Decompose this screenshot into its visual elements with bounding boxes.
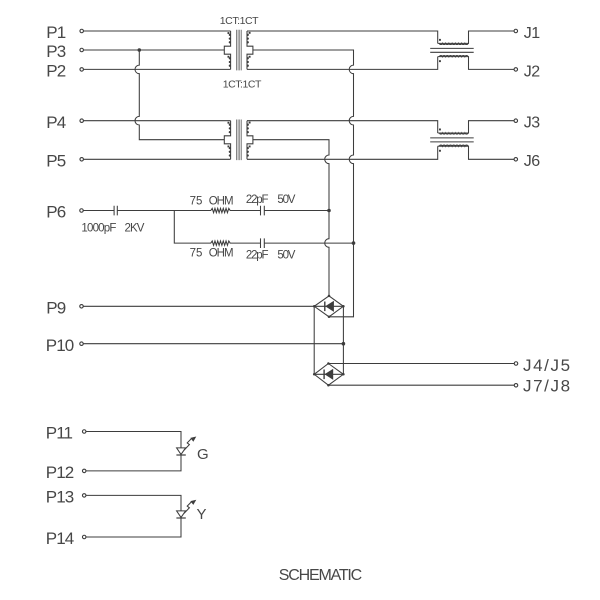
diode array D2 cathode bar [323,370,325,380]
svg-text:1000pF: 1000pF [81,222,116,234]
svg-text:1CT:1CT: 1CT:1CT [223,79,262,91]
wire T1 secondary top to choke L1 and J1 [247,31,438,43]
diode array D1 crossbar [314,305,343,307]
choke L2 top winding bumps [439,133,468,134]
wire P3 to T1 primary center tap [84,49,225,51]
transformer T2 secondary winding (right) [247,121,253,160]
diode array D2 vertex dots [327,362,330,365]
svg-text:J1: J1 [524,25,540,42]
transformer T2 core [237,120,242,161]
svg-text:P4: P4 [46,113,65,132]
choke L2 bottom phase dot [439,150,441,152]
diode array D1 cathode bar [324,302,326,312]
svg-text:P9: P9 [46,298,65,317]
choke L1 core [430,48,474,52]
svg-text:P10: P10 [46,336,74,355]
wire LED DS1 cathode to P12 [86,455,181,471]
terminal J6 [514,158,518,162]
wire P9 to diode array D1 left [83,305,314,307]
wire LED DS2 cathode to P14 [86,518,181,537]
diode array D1 diode triangle [325,301,334,312]
svg-text:J7/J8: J7/J8 [523,377,572,396]
transformer T2 primary winding (left) [224,121,230,160]
junction dot lower RC to vertical [352,241,356,245]
svg-text:P3: P3 [46,42,65,61]
transformer T1 secondary winding bumps [247,34,249,36]
LED DS1 emission arrow [184,438,192,450]
svg-text:75: 75 [190,196,203,208]
svg-text:J6: J6 [524,153,540,170]
wire P3 junction down to T2 center tap (hops over P2 and P4) [135,50,224,140]
svg-text:P12: P12 [46,463,74,482]
svg-text:50V: 50V [277,250,295,262]
terminal P12 [82,469,86,473]
wire T2 secondary top to choke L2 and J3 [247,121,438,133]
wire D2 top vertex to J4/J5 [328,363,514,365]
LED DS2 cathode bar [176,517,185,519]
capacitor C3 22pF 50V (lower) [261,238,265,248]
svg-text:Y: Y [197,506,207,523]
transformer T2 secondary phase dots [249,122,251,124]
choke L2 bottom winding [438,146,514,159]
transformer T1 primary winding (left) [224,31,230,69]
terminal P1 [80,29,84,33]
svg-text:22pF: 22pF [246,194,269,206]
capacitor C1 1000pF 2KV [114,206,117,216]
choke L1 top phase dot [439,39,441,41]
transformer T1 primary winding bumps [229,34,231,36]
svg-text:P14: P14 [46,529,74,548]
transformer T1 secondary winding (right) [247,31,253,69]
transformer T2 primary winding bumps [229,124,231,126]
svg-text:P6: P6 [46,203,65,222]
junction dot on P3 line [138,48,142,52]
wire T1 secondary bottom to choke L1 and J2 [247,57,438,70]
wire C1 to resistor R1, branch at x=174.3 [117,210,211,212]
capacitor C2 22pF 50V (upper) [261,206,265,216]
terminal P5 [80,158,84,162]
terminal P14 [82,535,86,539]
diode array D2 crossbar [314,373,343,375]
LED DS2 triangle [177,511,186,518]
svg-text:SCHEMATIC: SCHEMATIC [279,567,362,584]
transformer T1 primary phase dots [228,32,230,34]
wire R2 to capacitor C3 [230,242,261,244]
terminal P2 [80,68,84,72]
terminal J2 [514,68,518,72]
terminal J7/J8 [514,384,518,388]
svg-text:P13: P13 [46,488,74,507]
diode array D1 diamond [314,296,343,317]
choke L1 bottom winding bumps [439,55,468,56]
terminal J4/J5 [514,362,518,366]
diode array D2 diamond [314,364,343,386]
junction dot upper RC to vertical [327,209,331,213]
svg-text:J2: J2 [524,63,540,80]
choke L2 top phase dot [439,129,441,131]
diode array D2 diode triangle [325,369,334,380]
wire R1 to capacitor C2 [230,210,261,212]
svg-text:P2: P2 [46,62,65,81]
terminal P3 [80,48,84,52]
wire P10 to right vertical [83,343,343,345]
svg-text:J4/J5: J4/J5 [523,356,572,375]
svg-text:50V: 50V [277,194,295,206]
choke L1 top winding [438,31,514,43]
LED DS2 emission arrow [184,502,192,514]
junction dot P10 [342,342,346,346]
wire P1 to T1 primary top [84,30,231,32]
svg-text:P1: P1 [46,23,65,42]
svg-text:1CT:1CT: 1CT:1CT [220,15,259,27]
choke L2 core [430,138,474,142]
wire P13 to LED DS2 anode [86,495,181,511]
terminal P6 [80,209,84,213]
terminal P11 [82,430,86,434]
diode array D1 vertex dots [328,295,331,298]
wire C3 to junction on vertical [264,242,353,244]
transformer T2 secondary winding bumps [247,124,249,126]
wire P11 to LED DS1 anode [86,432,181,448]
svg-text:2KV: 2KV [125,222,145,234]
transformer T2 primary phase dots [228,122,230,124]
choke L2 bottom winding bumps [439,145,468,146]
transformer T1 core [237,30,242,71]
resistor R2 75 OHM [211,241,230,245]
wire D1 right vertex down to D2 right vertex [342,306,344,374]
wire D2 bottom vertex to J7/J8 [328,384,514,386]
wire T2 secondary center tap down to diode array D1 (hops at two lines) [253,140,329,296]
svg-text:22pF: 22pF [246,250,269,262]
svg-text:P11: P11 [46,424,73,443]
choke L1 top winding bumps [439,43,468,44]
wire D1 left vertex down to D2 left vertex [313,306,315,374]
svg-text:G: G [197,446,209,463]
choke L1 bottom winding [438,57,514,70]
wire P6 to capacitor C1 [83,210,114,212]
choke L1 bottom phase dot [439,60,441,62]
terminal J1 [514,29,518,33]
wire C2 to junction on vertical [264,210,329,212]
terminal P9 [80,305,84,309]
svg-text:P5: P5 [46,151,65,170]
resistor R1 75 OHM [211,208,230,212]
wire P4 to T2 primary top [84,120,231,122]
terminal P10 [80,342,84,346]
LED DS1 triangle [177,448,186,455]
svg-text:J3: J3 [524,115,540,132]
svg-text:OHM: OHM [209,247,233,259]
transformer T1 secondary phase dots [249,32,251,34]
terminal J3 [514,119,518,123]
wire T2 secondary bottom to choke L2 and J6 [247,146,438,159]
svg-text:75: 75 [190,247,203,259]
choke L2 top winding [438,121,514,133]
wire P2 to T1 primary bottom [84,68,231,70]
wire P5 to T2 primary bottom [84,158,231,160]
LED DS1 cathode bar [176,454,185,456]
wire branch down to lower leg [174,211,211,244]
terminal P4 [80,119,84,123]
wire T1 secondary center tap down to diode array D1 (hops at three lines) [253,50,354,317]
terminal P13 [82,494,86,498]
svg-text:OHM: OHM [209,196,233,208]
